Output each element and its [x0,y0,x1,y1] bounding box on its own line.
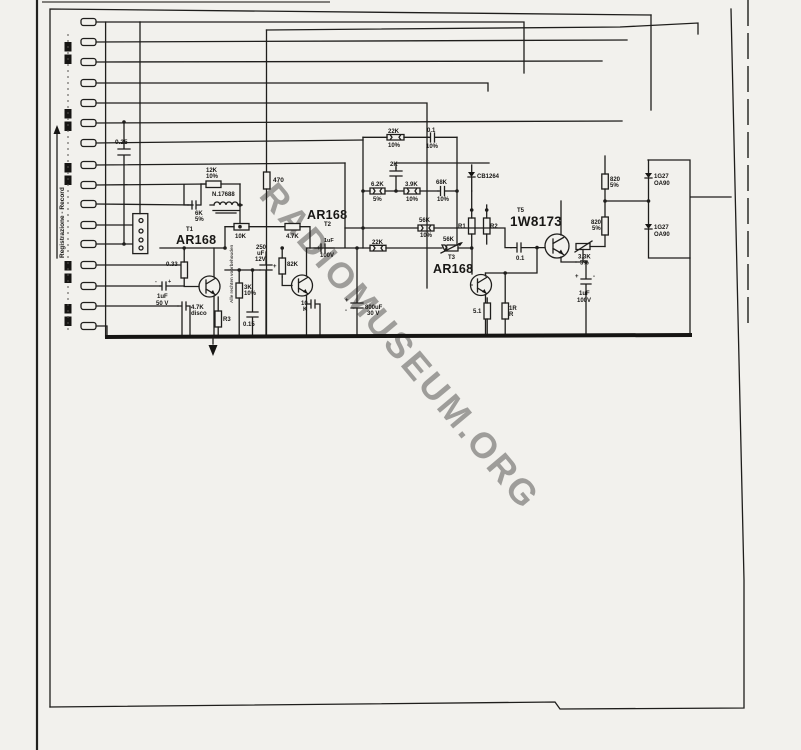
capacitor 68K 10% [436,180,457,203]
capacitor 2K [390,162,489,191]
svg-text:10%: 10% [420,233,433,239]
resistor R2 [484,205,499,244]
wire row12 extension to T2/T3 coupling [310,163,357,248]
vertical bus beside contacts [105,22,107,337]
resistor 6.2K 5% [363,182,404,203]
resistor 22K 10% (feedback top) [363,129,428,149]
record switch segment 2 [65,109,72,119]
transistor T2 AR168 label [307,208,347,228]
resistor 0.33 [166,250,188,286]
wire: L1 top rail into T4 collector [650,15,652,110]
svg-text:10%: 10% [406,197,419,203]
switch contacts column [81,19,96,330]
switch contact 13 [81,262,96,269]
transistor T3 AR168 label [433,255,473,276]
svg-text:R1: R1 [458,224,466,230]
svg-text:-: - [593,274,595,280]
svg-text:4.7K: 4.7K [286,234,299,240]
switch contact 10 [81,201,96,208]
dashed actuator line [67,34,69,330]
svg-text:10%: 10% [426,144,439,150]
wire row7 y143 [96,140,363,143]
switch contact 14 [81,283,96,290]
wire row1 y22 [96,21,140,23]
resistor 56K 10% [345,218,457,239]
record switch segment 5 [65,304,72,314]
svg-text:1uF: 1uF [157,294,168,300]
svg-text:30 V: 30 V [367,311,379,317]
output stage box right [648,160,731,335]
svg-text:10%: 10% [388,143,401,149]
svg-text:+: + [317,246,321,252]
svg-text:Alle rechten voorbehouden: Alle rechten voorbehouden [229,244,234,303]
switch contact 9 [81,182,96,189]
transistor T1 [184,248,220,335]
svg-text:470: 470 [273,177,284,184]
svg-text:10%: 10% [244,291,257,297]
svg-text:+: + [575,274,579,280]
wire row13 y265 [96,264,184,266]
resistor 820 5% (lower) [591,199,648,246]
outer page border left [36,0,38,750]
switch contact 7 [81,140,96,147]
record switch segments [65,42,72,326]
wire feedback column [363,137,457,248]
svg-text:AR168: AR168 [433,262,473,276]
resistor R (T3 emitter) [502,273,517,335]
svg-text:0.25: 0.25 [115,139,128,146]
capacitor 4.7K disco [178,302,207,335]
switch contact 16 [81,323,96,330]
wire row11 y225 [96,224,133,226]
resistor 82K [279,246,299,277]
capacitor 1uF 100V (T5) [575,260,595,335]
wire row5 y103 [96,103,427,288]
page edge line top [42,1,330,3]
svg-text:R2: R2 [490,224,498,230]
svg-text:R3: R3 [223,317,231,323]
svg-text:5.1: 5.1 [473,309,482,315]
svg-text:R: R [509,312,514,318]
variable resistor 3.3K 5% [575,241,605,267]
transistor T1 AR168 label [176,227,216,247]
resistor 3K 10% [236,270,257,335]
resistor R1 [458,191,475,250]
switch contact 1 [81,19,96,26]
switch contact 4 [81,80,96,87]
wire T1 bias [160,227,225,250]
capacitor 1uF 50V [155,279,184,307]
wire T1 collector rail [225,269,260,271]
svg-text:0.33: 0.33 [166,262,178,268]
resistor 470 [264,30,285,335]
capacitor 10K (T2 emitter) [301,300,320,335]
wire row2 y42 [96,40,627,42]
transistor T5 1W8173 label [510,208,562,229]
svg-text:5%: 5% [373,197,382,203]
record switch segment 4 [65,261,72,271]
svg-text:3.9K: 3.9K [405,182,418,188]
watermark RADIOMUSEUM.ORG [252,175,549,518]
svg-text:56K: 56K [443,237,455,243]
resistor 22K (T3 base) [357,240,442,251]
Registrazione-Record arrow and label [54,125,67,258]
diode 1G27 OA90 (upper) [645,160,670,201]
transistor T5 [545,201,576,262]
svg-text:0.15: 0.15 [243,322,255,328]
wire: L3 rail from selector column [140,22,524,73]
svg-text:+: + [168,279,171,285]
svg-text:10%: 10% [206,174,219,180]
capacitor 0.1 10% [426,128,457,150]
capacitor 800uF 30V [345,248,383,335]
svg-text:10K: 10K [235,234,247,240]
svg-text:10%: 10% [437,197,450,203]
resistor 3.9K 10% [394,182,438,203]
switch contact column stubs and rows [96,22,627,337]
svg-text:0.1: 0.1 [516,256,525,262]
svg-text:50 V: 50 V [156,301,168,307]
capacitor 0.25 [115,120,130,246]
resistor 10K [225,224,285,241]
svg-text:100V: 100V [320,253,334,259]
chassis arrow below bus [209,337,218,356]
switch contact 12 [81,241,96,248]
record switch segment 1 [65,42,72,52]
svg-text:1W8173: 1W8173 [510,214,562,229]
switch contact 2 [81,39,96,46]
svg-text:CB1264: CB1264 [477,174,500,180]
inner frame [50,9,651,707]
resistor 12K 10% [201,168,240,188]
svg-text:OA90: OA90 [654,181,670,187]
wire oscillator block [184,184,242,225]
record switch segment 3 [65,163,72,173]
svg-text:6.2K: 6.2K [371,182,384,188]
svg-text:56K: 56K [419,218,431,224]
switch contact 6 [81,120,96,127]
oscillator coil N.17688 [210,192,242,213]
resistor 820 5% (upper) [602,156,621,217]
capacitor Q3 coupling [457,228,545,262]
switch contact 15 [81,303,96,310]
wire T3 collector to T5 base [486,248,538,273]
svg-text:5%: 5% [195,217,204,223]
svg-text:Registrazione - Record: Registrazione - Record [59,187,66,258]
play/record selector box [133,22,148,254]
resistor R3 [215,297,231,335]
switch contact 3 [81,59,96,66]
capacitor 6K 5% [188,201,204,223]
svg-text:T3: T3 [448,255,456,261]
svg-text:1uF: 1uF [579,291,590,297]
svg-text:1uF: 1uF [324,238,334,244]
svg-text:12V: 12V [255,257,266,263]
diode 1G27 OA90 (lower) [645,199,690,258]
svg-text:1G27: 1G27 [654,174,669,180]
svg-text:+: + [273,264,277,270]
transistor T2 [282,248,312,335]
switch contact 8 [81,162,96,169]
svg-text:+: + [345,298,349,304]
wire row15 y306 [96,305,178,307]
svg-text:100V: 100V [577,298,591,304]
capacitor 0.15 [243,270,258,335]
svg-text:AR168: AR168 [176,233,216,247]
svg-text:T2: T2 [324,222,332,228]
wire row6 y123 [96,121,622,123]
ground bus [107,335,690,337]
switch contact 5 [81,100,96,107]
resistor 5.1 [473,298,491,335]
diode CB1264 [468,165,500,191]
wire row9 y185 [96,184,207,185]
wire row4 y83 [96,83,488,91]
svg-text:disco: disco [191,311,207,317]
svg-text:5%: 5% [592,226,601,232]
resistor 4.7K [285,224,310,249]
svg-text:82K: 82K [287,262,299,268]
wire row10 y204 [96,204,193,205]
wire row8 y165 [96,163,345,165]
svg-text:1G27: 1G27 [654,225,669,231]
capacitor 250uF 12V [255,245,277,335]
wire row14 y286 [96,285,160,287]
wire row16 y326 [96,326,107,337]
svg-text:OA90: OA90 [654,232,670,238]
transistor T3 [471,273,492,335]
svg-text:-: - [345,308,347,314]
wire: L2 rail to output transformer [267,23,699,34]
svg-text:68K: 68K [436,180,448,186]
switch contact 11 [81,222,96,229]
wire row3 y62 [96,61,602,62]
svg-text:K: K [303,307,308,313]
svg-text:AR168: AR168 [307,208,347,222]
svg-text:-: - [155,279,157,285]
svg-text:5%: 5% [610,183,619,189]
svg-text:N.17688: N.17688 [212,192,235,198]
capacitor 1uF 100V (T2 out) [314,238,334,259]
wire row12 y244 [96,243,133,245]
variable resistor 56K [441,237,472,274]
outer page border right (broken) [747,0,749,330]
